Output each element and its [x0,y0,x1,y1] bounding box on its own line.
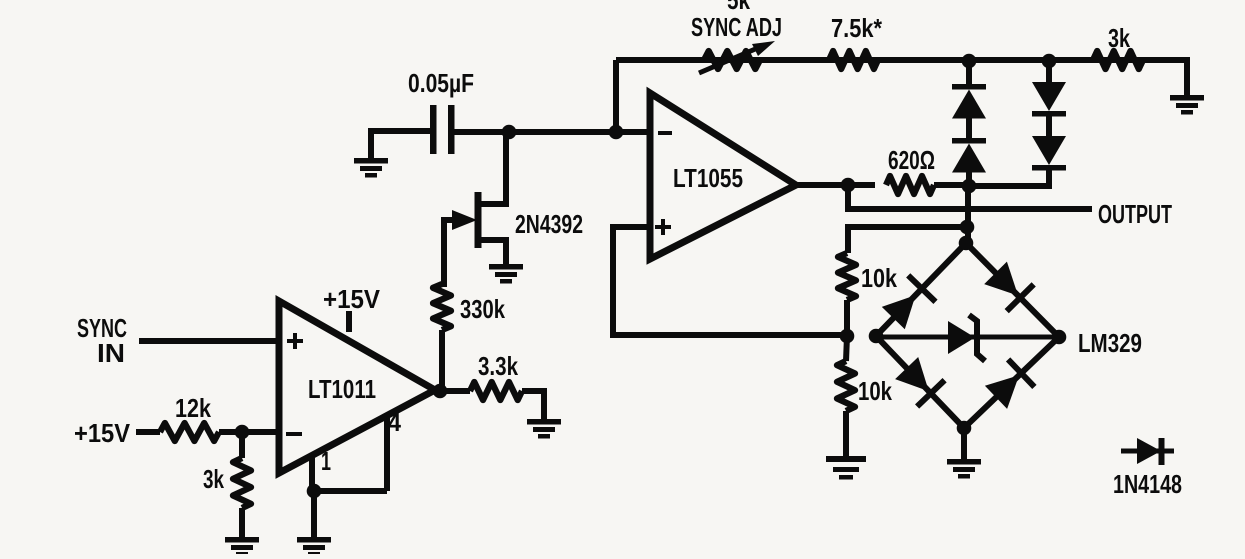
svg-text:2N4392: 2N4392 [515,209,583,239]
JFET source lead [481,240,506,264]
bridge diode D5 (top-left, points to top) [882,275,936,329]
wire output to 3.3k [440,388,470,394]
wire right string bottom to 620 node [969,170,1049,186]
label SYNC IN [77,313,127,368]
svg-text:3k: 3k [203,464,224,494]
capacitor C1 right plate [448,105,455,154]
ground below 3k [225,537,259,557]
resistor R 620 [886,176,934,194]
ground below lower 10k [826,456,866,480]
LT1055 - input symbol [658,131,672,135]
label OUTPUT [1098,199,1172,229]
LT1011 - input symbol [286,432,302,436]
wire 330k to gate elbow [442,220,462,284]
svg-text:IN: IN [97,338,125,368]
svg-text:0.05µF: 0.05µF [408,68,474,98]
wire node down to 3k [239,432,245,458]
wire 12k to - input [219,429,279,435]
resistor R 3k (left) [233,458,251,508]
comparator U1 LT1011 triangle [279,301,435,473]
svg-text:12k: 12k [175,393,211,423]
diode legend 1N4148 lead [1121,449,1174,454]
resistor R 10k (lower) [837,361,855,411]
resistor R 10k (upper) [838,253,856,300]
wire lower 10k to ground [843,411,849,456]
bridge diode D6 (top-right, points to right) [984,262,1033,312]
label LM329 [1078,328,1142,358]
zener LM329 horizontal wire [876,335,1059,340]
ground below bridge [947,459,981,479]
node B clamp junction [962,179,977,194]
wire mid node to lower 10k [846,336,847,361]
label 3k (top right) [1108,23,1130,53]
wire 3k to ground [239,508,245,537]
svg-text:OUTPUT: OUTPUT [1098,199,1172,229]
op-amp U2 LT1055 triangle [650,93,796,259]
diode D2 (left string lower, cathode up) [952,138,986,173]
node bridge right vertex [1052,330,1067,345]
label 5k (cut at top) [727,0,750,15]
label 0.05uF [408,68,474,98]
svg-text:10k: 10k [858,376,892,406]
diode legend triangle [1137,438,1161,464]
wire top rail [616,57,1187,63]
svg-text:SYNC ADJ: SYNC ADJ [691,12,782,42]
wire right diode string top [1046,60,1052,82]
wire left diode string top [966,60,972,84]
wire 3.3k to ground corner [522,391,544,419]
wire cap to LT1055 - input [454,129,650,135]
ground below JFET source [489,264,523,284]
pin 4 wire [384,414,390,491]
svg-text:7.5k*: 7.5k* [831,13,883,43]
wire left string bottom [966,172,972,189]
svg-text:3k: 3k [1108,23,1130,53]
diode D4 (right string lower, cathode down) [1032,136,1066,171]
wire 10k to mid node [844,300,850,335]
node at 12k/3k junction [235,425,250,440]
svg-text:LT1055: LT1055 [673,163,743,193]
pin 1 wire [309,455,315,491]
label 3k (left) [203,464,224,494]
capacitor C1 left plate [430,105,437,154]
label 330k [460,294,505,324]
label 2N4392 [515,209,583,239]
diode legend cathode bar [1159,438,1165,465]
node bridge left vertex [869,329,884,344]
bridge edge bottom-right [964,337,1059,428]
wire SYNC IN to LT1011 + input [139,338,279,344]
svg-text:+15V: +15V [74,418,131,448]
label 7.5k* [831,13,883,43]
label pin 1 [321,446,331,476]
node top rail / right diode string [1042,54,1057,69]
wire +15V to 12k [136,429,160,435]
label 10k (lower) [858,376,892,406]
label LT1055 [673,163,743,193]
ground top right [1170,95,1204,115]
wire node C to 10k corner [848,227,967,253]
resistor R 7.5k [829,51,878,69]
JFET Q1 2N4392 channel bar [475,192,482,248]
node feedback junction [609,125,624,140]
resistor R 330k [433,284,451,330]
wire 3k to ground corner [1143,60,1187,95]
node pin1 junction [307,484,322,499]
wire LT1055 output [796,182,875,188]
wire bridge bottom to ground [961,428,967,459]
bridge edge top-left [876,243,966,336]
wire left string mid [966,118,972,138]
wire LT1011 output up to 330k [439,330,445,391]
bridge diode D8 (bottom-right, points to right) [985,359,1035,409]
node bridge bottom vertex [957,421,972,436]
svg-text:3.3k: 3.3k [478,351,518,381]
diode D3 (right string upper, cathode down) [1032,82,1066,117]
potentiometer 5k SYNC ADJ zigzag [704,51,760,69]
resistor R 3.3k [470,382,522,400]
svg-text:620Ω: 620Ω [888,145,935,175]
label SYNC ADJ [691,12,782,42]
node between 10k resistors [840,329,855,344]
wire pin1 node to ground [311,491,317,537]
label LT1011 [308,374,376,404]
wire feedback vertical to top rail [613,60,619,132]
node cap/JFET drain [502,125,517,140]
node LT1055 output [841,178,856,193]
potentiometer wiper arrow [699,41,775,73]
label 620ohm [888,145,935,175]
label +15V (left rail) [74,418,131,448]
bridge edge top-right [966,243,1059,337]
resistor R 3k (top right) [1093,51,1143,69]
wire cap left to ground corner [371,131,430,158]
JFET drain lead [481,136,506,204]
wire OUTPUT [848,185,1092,209]
LT1011 +15V supply stub [346,311,352,332]
svg-text:1: 1 [321,446,331,476]
wire pin1 to pin4 bottom [312,488,387,494]
ground below pin 1 [297,537,331,557]
zener Z1 LM329 triangle [948,321,975,354]
label pin 4 [388,407,401,437]
bridge diode D7 (bottom-left, points to bottom) [895,357,945,407]
LT1011 + input symbol [287,333,303,349]
node LT1011 output [433,384,448,399]
node C junction to 10k [960,220,975,235]
node top rail / left diode string [962,54,977,69]
resistor R 12k [160,423,219,441]
ground below cap [354,158,388,178]
svg-text:LM329: LM329 [1078,328,1142,358]
JFET Q1 gate arrow [452,210,477,230]
svg-text:330k: 330k [460,294,505,324]
svg-text:10k: 10k [861,263,897,293]
bridge edge bottom-left [876,336,964,428]
label +15V (above LT1011) [323,284,381,314]
node bridge top vertex [959,236,974,251]
svg-text:LT1011: LT1011 [308,374,376,404]
label 3.3k [478,351,518,381]
wire node B down to bridge top [965,186,971,245]
LT1055 + input symbol [655,219,671,235]
svg-text:+15V: +15V [323,284,381,314]
svg-text:4: 4 [388,407,401,437]
label 10k (upper) [861,263,897,293]
diode D1 (left string upper, cathode up) [952,84,986,119]
label 1N4148 [1113,469,1182,499]
wire LT1055 + input loop [613,227,847,335]
wire right string mid [1046,116,1052,136]
svg-text:1N4148: 1N4148 [1113,469,1182,499]
wire 620 to node B [934,182,969,188]
zener Z1 cathode bar [969,315,985,361]
label 12k [175,393,211,423]
ground below 3.3k [527,419,561,439]
